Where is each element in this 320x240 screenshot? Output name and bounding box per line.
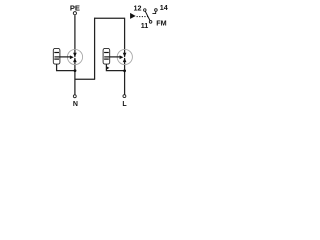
trigger box T1 (53, 48, 60, 64)
svg-text:12: 12 (134, 4, 142, 13)
FM actuator arrow on T2 stub (106, 66, 109, 69)
svg-text:L: L (122, 101, 127, 108)
spark gap F2 arrow down (123, 53, 127, 57)
junction dot L branch (123, 69, 126, 72)
terminal 11 (149, 21, 152, 24)
spark gap F2 circle (117, 49, 132, 64)
wire PE down to spark gap F1 (74, 15, 76, 57)
wire horizontal y=79.3 from left branch to x=94.6 (75, 78, 95, 80)
svg-text:FM: FM (156, 19, 166, 28)
svg-text:14: 14 (160, 3, 168, 12)
trigger box T2 (103, 48, 110, 64)
terminal 12 (144, 9, 147, 12)
trigger arrow F2 head (120, 55, 124, 59)
wire spark gap F2 down to terminal L (124, 58, 126, 95)
junction dot N branch (74, 69, 77, 72)
spark gap F2 arrow up (123, 58, 127, 62)
spark gap F1 arrow up (73, 58, 77, 62)
terminal PE (73, 12, 76, 15)
switch lever 11-12 (145, 11, 150, 20)
trigger box T2 electrode bar bottom (104, 58, 109, 60)
wire top loop: horizontal y=18.2 from x=94.6 to x=124.6 (94, 17, 125, 19)
trigger arrow F1 shaft (55, 56, 71, 58)
svg-text:N: N (73, 101, 78, 108)
wire L branch: top y=18.2 down to spark gap F2 (124, 18, 126, 57)
trigger box T2 electrode bar top (104, 52, 109, 54)
wire vertical x=94.6 from y=18.2 to y=79.3 (94, 18, 96, 80)
FM actuator arrow head (130, 13, 136, 19)
svg-text:11: 11 (141, 21, 149, 30)
svg-text:PE: PE (70, 3, 80, 12)
contact 14 stub (152, 12, 155, 14)
wire T2 bottom stub (106, 64, 124, 71)
spark gap F1 arrow down (73, 53, 77, 57)
FM actuator dotted linkage (137, 16, 148, 18)
trigger arrow F2 shaft (104, 56, 120, 58)
wire spark gap F1 down to terminal N (74, 58, 76, 95)
trigger box T1 electrode bar bottom (54, 58, 59, 60)
trigger box T1 electrode bar top (54, 52, 59, 54)
wire T1 bottom stub (57, 64, 75, 71)
terminal L (123, 95, 126, 98)
trigger arrow F1 head (70, 55, 74, 59)
spark gap F1 circle (67, 49, 82, 64)
terminal 14 (155, 9, 158, 12)
terminal N (73, 95, 76, 98)
